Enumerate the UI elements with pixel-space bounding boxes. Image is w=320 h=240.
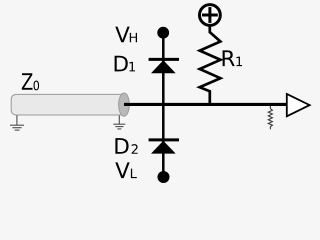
label Z0 (22, 73, 39, 90)
label R1 (223, 50, 242, 66)
wire: main horizontal signal line (124, 103, 287, 106)
termination resistor (small, at buffer input) (268, 106, 272, 129)
diode D2 (149, 140, 179, 154)
label VH (115, 27, 137, 43)
label D1 (115, 56, 135, 72)
diode D1 (149, 59, 179, 73)
wire: vertical diode branch (162, 32, 165, 177)
transmission line Z0 body (11, 94, 124, 115)
buffer triangle (probe/receiver) (287, 94, 310, 116)
label VL (115, 162, 137, 178)
node VL dot (158, 171, 170, 183)
node VH dot (157, 27, 169, 39)
ground (right end of line) (113, 115, 125, 128)
positive supply symbol (circle with plus) (200, 5, 221, 26)
label D2 (115, 138, 137, 154)
transmission line right end cap (119, 93, 130, 116)
ground (left end of line) (10, 115, 24, 130)
resistor R1 (200, 25, 221, 104)
